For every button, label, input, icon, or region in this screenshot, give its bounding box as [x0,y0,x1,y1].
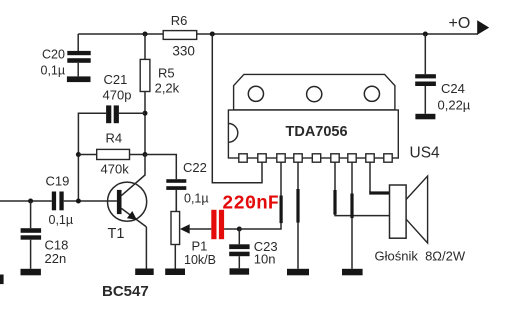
node I junction dot 220nF/C23/pin3 [237,227,242,232]
wire pin 4 to ground [296,162,299,269]
ground (pin 7) [342,269,363,276]
op-amp/IC US4 TDA7056 package [228,74,398,158]
wire 220nF to node I [224,228,239,230]
wire pin 8 to speaker (upper, bold) [369,162,390,194]
wire pin 7 to ground [350,162,353,269]
wire pin 6 to speaker (lower) [333,162,389,215]
svg-text:T1: T1 [108,226,125,242]
resistor R5 [140,59,150,91]
svg-text:0,1µ: 0,1µ [49,213,74,227]
svg-text:R6: R6 [171,13,188,28]
svg-text:C22: C22 [183,160,207,175]
ground (P1) [165,269,185,276]
svg-text:+O: +O [449,15,471,32]
US4 pin 5 [312,154,320,162]
wire rail to R5 [144,34,146,59]
ground (pin 4) [287,269,309,276]
capacitor C22 [166,179,186,211]
node G junction dot input/C18 [28,199,33,204]
US4 pin 1 [239,154,247,162]
svg-text:P1: P1 [192,238,208,253]
svg-text:470k: 470k [101,162,130,177]
wire pin 3 to input node [239,162,282,229]
wire input (left edge) [0,200,52,202]
US4 pin 3 [277,154,285,162]
svg-text:0,1µ: 0,1µ [41,64,66,78]
svg-text:TDA7056: TDA7056 [286,124,348,140]
resistor R6 [163,31,197,40]
US4 pin 6 [331,154,339,162]
resistor R4 [97,149,130,159]
transistor T1 [108,155,147,227]
wire R4 left [78,154,96,156]
node H junction dot C19/left-branch [76,199,81,204]
svg-text:2,2k: 2,2k [155,81,180,96]
wire P1 to ground [174,245,176,269]
node F junction dot R4/R5/C22/collector [143,152,148,157]
svg-text:22n: 22n [45,251,67,266]
left-edge cropped ground mark [0,275,4,285]
svg-text:10k/B: 10k/B [184,253,216,267]
wire R4 right [130,154,146,156]
wire R5 to node D [144,92,146,155]
wire C20 drop from rail [77,34,79,52]
ground (T1 emitter) [135,269,154,276]
svg-text:BC547: BC547 [102,283,149,300]
ground (C20) [67,76,91,82]
ground (C18) [21,269,41,276]
capacitor C20 [67,51,90,77]
svg-text:C24: C24 [441,81,465,96]
svg-text:220nF: 220nF [222,193,279,215]
wire supply drop to pin 2 [212,34,262,183]
svg-text:US4: US4 [410,145,441,162]
US4 pin 4 [294,154,302,162]
capacitor C23 [229,229,249,268]
svg-text:10n: 10n [254,252,276,267]
ground (C24) [415,114,435,120]
node E junction dot R4 left [76,152,81,157]
node B junction dot rail/supply-drop [210,32,215,37]
node C junction dot rail/C24 [423,32,428,37]
potentiometer P1 [171,212,211,245]
wire emitter to ground [145,227,147,269]
capacitor C18 [21,228,41,269]
wire C22 to P1 [175,190,177,212]
ground (C23) [230,268,250,274]
svg-text:C21: C21 [104,72,128,87]
capacitor C19 [52,192,64,211]
svg-text:330: 330 [172,44,195,59]
svg-text:R5: R5 [158,66,175,81]
svg-text:0,22µ: 0,22µ [438,97,471,112]
US4 pin 8 [366,154,374,162]
svg-text:0,1µ: 0,1µ [184,192,209,206]
capacitor 220nF (red, hand-marked) [211,210,224,239]
wire C21 left branch [78,113,106,201]
wire C19 to base [64,200,117,202]
svg-text:Głośnik 8Ω/2W: Głośnik 8Ω/2W [375,249,466,264]
capacitor C24 [415,74,436,114]
US4 pin 7 [348,154,356,162]
US4 pin 9 [384,154,392,162]
node D junction dot R5/C21 [143,111,148,116]
wire C18 drop [30,201,32,228]
wire node F to C22 [145,155,176,180]
wire +V supply rail (top) [78,33,478,35]
wire rail to C24 [424,34,426,74]
capacitor C21 [106,105,145,123]
speaker (Głośnik) [390,176,428,243]
svg-text:R4: R4 [106,131,123,146]
svg-text:470p: 470p [103,88,132,103]
node A junction dot rail/R5 [143,32,148,37]
svg-text:C20: C20 [42,47,65,61]
svg-text:C19: C19 [46,174,70,189]
output arrow [477,20,489,35]
US4 pin 2 [258,154,266,162]
